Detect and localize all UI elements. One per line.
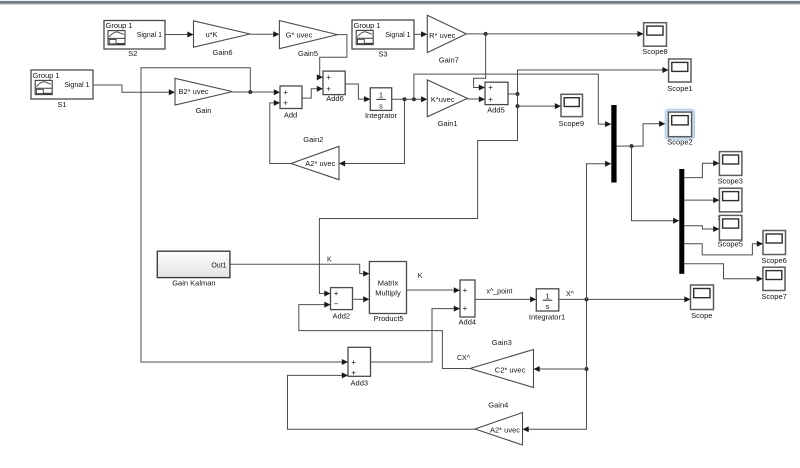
svg-text:Add6: Add6	[326, 94, 344, 103]
wire S1 to Gain	[93, 85, 175, 95]
wire Add2 to Product5 input2	[353, 296, 370, 302]
svg-text:+: +	[463, 304, 468, 313]
node at Mux1 output	[630, 144, 634, 148]
wire Integrator1 to Scope	[559, 296, 691, 302]
svg-text:R* uvec: R* uvec	[429, 31, 456, 40]
svg-text:S1: S1	[57, 100, 66, 109]
node above Scope9 input	[516, 104, 520, 108]
svg-text:Scope9: Scope9	[559, 119, 584, 128]
wire Gain6 to Gain5	[250, 31, 279, 37]
svg-text:Scope8: Scope8	[642, 47, 667, 56]
svg-text:S2: S2	[128, 49, 137, 58]
svg-text:+: +	[334, 289, 339, 298]
node at Integrator output (branch down)	[403, 97, 407, 101]
sum Add4	[459, 280, 477, 327]
svg-text:+: +	[488, 95, 493, 104]
svg-text:+: +	[326, 73, 331, 82]
wire Integrator to Gain1	[392, 96, 428, 102]
scope Scope1	[667, 59, 692, 93]
gain Gain6	[194, 21, 251, 57]
integrator Integrator	[365, 88, 398, 120]
wire Gain5 to Add6 input1	[317, 35, 347, 81]
wire Add5 to Scope1	[508, 67, 669, 94]
scope Scope8	[642, 23, 667, 56]
svg-text:+: +	[463, 286, 468, 295]
gain Gain1 (K*uvec)	[427, 80, 467, 128]
node at Gain output	[248, 90, 252, 94]
wire Gain Kalman to Product5 input1	[230, 264, 370, 276]
svg-text:Product5: Product5	[374, 314, 404, 323]
wire Gain feedforward to Add3 input1	[141, 68, 348, 365]
svg-text:Add: Add	[284, 111, 297, 120]
svg-text:K: K	[418, 273, 423, 280]
svg-text:s: s	[546, 302, 550, 311]
svg-text:Add4: Add4	[459, 318, 477, 327]
node at Add5 output	[516, 92, 520, 96]
wire Demux2 out3 to Scope5	[684, 226, 719, 232]
wire Gain7 branch to Add5 input1	[474, 34, 486, 91]
svg-text:B2* uvec: B2* uvec	[178, 87, 208, 96]
svg-text:K: K	[327, 256, 332, 263]
svg-text:Scope7: Scope7	[761, 292, 786, 301]
svg-text:Scope2: Scope2	[667, 138, 692, 147]
svg-text:Gain7: Gain7	[439, 56, 459, 65]
scope Scope4	[717, 188, 742, 222]
wire to Demux2	[632, 146, 680, 224]
svg-text:Scope6: Scope6	[761, 256, 786, 265]
wire Demux2 out5 to Scope7	[684, 264, 763, 282]
svg-text:+: +	[283, 99, 288, 108]
svg-text:Signal 1: Signal 1	[385, 32, 410, 39]
wire Mux1 output	[617, 145, 632, 147]
gain Gain2 (A2* uvec)	[291, 135, 339, 180]
gain Gain3 (C2* uvec)	[470, 338, 534, 388]
svg-text:x^_point: x^_point	[487, 288, 513, 295]
svg-text:+: +	[326, 85, 331, 94]
svg-text:+: +	[488, 83, 493, 92]
gain Gain7	[427, 15, 466, 64]
sum Add2	[331, 288, 353, 321]
wire X^ down to Gain4	[523, 299, 587, 432]
product Product5 (Matrix Multiply)	[369, 262, 406, 324]
svg-text:CX^: CX^	[457, 355, 471, 362]
wire Integrator branch to Gain2	[339, 99, 405, 166]
scope Scope2 (selected)	[665, 109, 694, 146]
svg-text:Gain6: Gain6	[212, 48, 232, 57]
svg-text:Scope5: Scope5	[717, 239, 742, 248]
node at Gain3 branch	[585, 367, 589, 371]
wire Add4 to Integrator1	[475, 296, 536, 302]
scope Scope5	[717, 215, 742, 248]
svg-text:X^: X^	[566, 291, 575, 298]
wire X^ up to Mux1 input2	[587, 161, 612, 300]
svg-text:Scope3: Scope3	[717, 176, 742, 185]
svg-text:Signal 1: Signal 1	[137, 32, 162, 39]
scope Scope9	[559, 94, 584, 128]
wire S3 to Gain7	[414, 31, 427, 37]
svg-text:1: 1	[379, 91, 383, 100]
svg-text:Add3: Add3	[351, 378, 369, 387]
wire Demux2 out2 to Scope4	[684, 197, 719, 203]
svg-text:+: +	[283, 88, 288, 97]
top window separator bar	[0, 0, 800, 5]
svg-text:+: +	[351, 358, 356, 367]
svg-text:A2* uvec: A2* uvec	[305, 159, 335, 168]
svg-text:Gain5: Gain5	[298, 49, 318, 58]
node at X^	[585, 297, 589, 301]
wire Gain1 to Add5 input2	[467, 96, 485, 102]
wire branch to Gain3	[534, 366, 587, 372]
node at Gain7 output	[484, 32, 488, 36]
svg-text:Group 1: Group 1	[106, 21, 133, 30]
svg-text:Matrix: Matrix	[378, 279, 399, 288]
svg-text:Group 1: Group 1	[33, 71, 60, 80]
svg-text:G* uvec: G* uvec	[286, 30, 313, 39]
wire Gain4 to Add3 input2	[288, 372, 476, 429]
wire measurement feedback to Add2 input1	[319, 106, 517, 296]
wire Demux2 out1 to Scope3	[684, 160, 719, 177]
svg-text:Integrator: Integrator	[365, 111, 398, 120]
svg-text:1: 1	[545, 291, 549, 300]
svg-text:Gain: Gain	[196, 106, 212, 115]
wire Add to Add6 input2	[302, 86, 323, 98]
svg-text:u*K: u*K	[205, 30, 217, 39]
wire Gain2 to Add input2	[270, 100, 291, 164]
gain Gain (B2* uvec)	[175, 78, 233, 115]
svg-text:Multiply: Multiply	[375, 289, 401, 298]
svg-text:Gain1: Gain1	[438, 119, 458, 128]
scope Scope7	[761, 267, 786, 301]
svg-text:−: −	[334, 300, 339, 309]
wire to Scope2	[632, 121, 666, 146]
svg-text:+: +	[351, 368, 356, 377]
wire Add3 to Add4 input2	[371, 306, 461, 362]
wire Demux2 out4 to Scope6	[684, 241, 763, 255]
svg-text:A2* uvec: A2* uvec	[490, 425, 520, 434]
svg-text:Signal 1: Signal 1	[64, 82, 89, 89]
signal builder S2	[104, 21, 165, 59]
svg-text:K*uvec: K*uvec	[431, 95, 455, 104]
sum Add6	[323, 71, 345, 103]
svg-text:Add2: Add2	[333, 311, 351, 320]
sum Add	[280, 86, 302, 120]
gain Gain5	[279, 21, 337, 59]
wire Gain to Add input1	[233, 89, 281, 95]
scope Scope3	[717, 152, 742, 186]
svg-text:Scope1: Scope1	[667, 84, 692, 93]
svg-text:Integrator1: Integrator1	[529, 313, 565, 322]
svg-text:Scope: Scope	[691, 311, 712, 320]
svg-text:Gain Kalman: Gain Kalman	[172, 278, 215, 287]
wire Add6 to Integrator	[345, 84, 370, 102]
sum Add3	[348, 347, 371, 387]
gain Gain4 (A2* uvec)	[475, 400, 523, 445]
svg-text:S3: S3	[378, 49, 387, 58]
svg-text:Out1: Out1	[211, 262, 226, 269]
wire S2 to Gain6	[165, 32, 194, 38]
wire Integrator branch to Mux1 input1	[414, 74, 611, 127]
svg-text:C2* uvec: C2* uvec	[495, 366, 526, 375]
subsystem Gain Kalman	[157, 251, 230, 287]
signal builder S3	[352, 20, 414, 58]
svg-text:s: s	[379, 101, 383, 110]
svg-text:Gain3: Gain3	[492, 338, 512, 347]
demux Demux2	[679, 169, 684, 274]
svg-text:Add5: Add5	[487, 105, 505, 114]
mux Mux1	[611, 105, 616, 183]
signal builder S1	[31, 70, 93, 109]
wire Gain3 to Add2 input2	[299, 302, 470, 369]
svg-text:Gain4: Gain4	[488, 400, 508, 409]
wire Product5 to Add4 input1	[407, 287, 461, 293]
scope Scope	[691, 285, 714, 320]
sum Add5	[485, 82, 508, 114]
integrator Integrator1	[529, 289, 565, 322]
svg-text:Group 1: Group 1	[354, 21, 381, 30]
wire Gain7 to Scope8	[466, 31, 643, 37]
svg-text:Gain2: Gain2	[303, 135, 323, 144]
scope Scope6	[761, 231, 786, 265]
node at Integrator output (branch up)	[412, 97, 416, 101]
wire branch to Scope9	[518, 94, 562, 109]
